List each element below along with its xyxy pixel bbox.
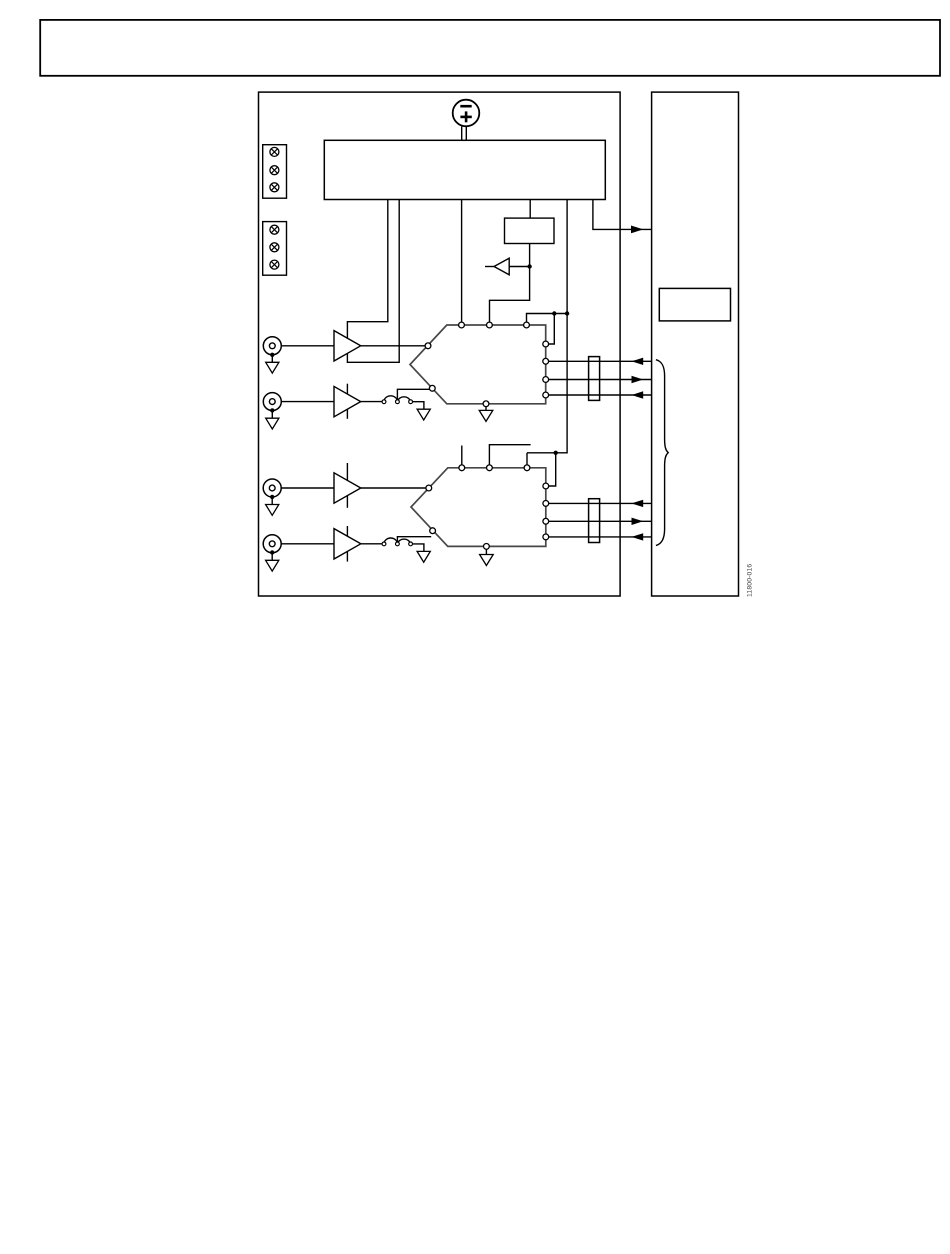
ground J1 <box>266 362 279 373</box>
clock buffer U2 <box>485 258 530 275</box>
wire J1 shield to ground <box>271 355 273 363</box>
wire MUX2 clock stub <box>489 445 530 466</box>
test point block TP1 <box>263 145 287 199</box>
ground J4 <box>266 560 279 571</box>
wire L1 tap to MUX1 input 2 <box>397 389 431 400</box>
wire clock out to FPGA <box>593 200 652 230</box>
wire MUX1 data out 2 <box>549 394 652 396</box>
wire MUX2 data out 2 <box>549 536 652 538</box>
junction select node C <box>554 451 558 455</box>
buffer A4 bias tick <box>346 526 348 562</box>
arrow bus2 line2 <box>632 533 644 540</box>
wire L1 to ground <box>413 402 424 410</box>
buffer A3 bias tick <box>346 463 348 508</box>
wire A2 to inductor L1 <box>361 401 384 403</box>
junction J2 shield <box>270 408 274 412</box>
buffer A3 <box>334 473 361 503</box>
supply source V1 <box>453 100 480 127</box>
arrow bus1 line0 <box>632 358 644 365</box>
multiplexer MUX1 <box>410 322 549 407</box>
ground L1 <box>417 409 430 420</box>
junction J1 shield <box>270 353 274 357</box>
wire MUX1 data out 1 <box>549 379 652 381</box>
connector block inside FPGA <box>659 288 730 321</box>
multiplexer MUX2 <box>411 465 549 549</box>
wire L2 tap to MUX2 input 2 <box>397 537 431 542</box>
wire MUX1 select pin riser <box>527 314 568 324</box>
FPGA block <box>652 92 739 596</box>
wire J2 to buffer A2 <box>281 401 334 403</box>
wire J3 shield to ground <box>271 497 273 505</box>
wire MUX2 enable drop <box>548 453 556 486</box>
arrow bus2 line1 <box>632 518 644 525</box>
arrow clock into FPGA <box>631 226 643 234</box>
regulator block U1 <box>324 140 605 199</box>
wire MUX2 select riser <box>526 453 528 466</box>
wire J2 shield to ground <box>271 410 273 418</box>
wire J4 to buffer A4 <box>281 543 334 545</box>
wire MUX1 ground stub <box>485 407 487 411</box>
resistor network RN2 <box>589 499 600 543</box>
junction select node B <box>565 311 569 315</box>
test point block TP2 <box>263 222 287 276</box>
buffer A1 <box>334 331 361 361</box>
arrow bus1 line1 <box>632 376 644 383</box>
resistor network RN1 <box>589 357 600 401</box>
wire MUX2 data out 0 <box>549 502 652 504</box>
ground J2 <box>266 418 279 429</box>
wire A4 to inductor L2 <box>361 543 384 545</box>
wire supply to regulator (double line) <box>462 126 467 140</box>
wire regulator to oscillator <box>529 200 531 219</box>
wire regulator to MUX1 pin <box>461 200 463 324</box>
wire select net from regulator <box>527 200 567 453</box>
connector J3 <box>263 479 281 497</box>
wire MUX2 data out 1 <box>549 520 652 522</box>
junction clock node <box>527 264 531 268</box>
connector J2 <box>263 393 281 411</box>
buffer A2 bias tick <box>346 384 348 419</box>
svg-text:11800-016: 11800-016 <box>747 564 754 597</box>
ground MUX1 <box>479 410 493 421</box>
connector J1 <box>263 337 281 355</box>
wire L2 to ground <box>413 544 424 552</box>
junction select node A <box>552 311 556 315</box>
wire MUX2 pin stub <box>461 446 463 466</box>
connector J4 <box>263 535 281 553</box>
junction J3 shield <box>270 495 274 499</box>
wire J1 to buffer A1 <box>281 345 334 347</box>
buffer A4 <box>334 529 361 559</box>
evaluation board outline <box>259 92 621 596</box>
wire A1 to MUX1 input 1 <box>361 345 428 347</box>
wire regulator to buffer A1 loop <box>347 200 399 363</box>
wire MUX2 ground stub <box>485 549 487 554</box>
ground J3 <box>266 505 279 516</box>
wire MUX1 enable stub <box>546 314 555 345</box>
wire A3 to MUX2 input 1 <box>361 487 429 489</box>
title block frame <box>40 20 940 76</box>
wire oscillator to MUX1 clock pin <box>490 244 530 324</box>
wire MUX1 data out 0 <box>549 360 652 362</box>
buffer A2 <box>334 386 361 416</box>
inductor L1 <box>382 396 412 404</box>
brace data bus group <box>656 360 668 546</box>
arrow bus2 line0 <box>632 500 644 507</box>
inductor L2 <box>382 538 412 546</box>
ground L2 <box>417 551 430 562</box>
junction J4 shield <box>270 550 274 554</box>
wire J3 to buffer A3 <box>281 487 334 489</box>
ground MUX2 <box>480 555 494 566</box>
arrow bus1 line2 <box>632 391 644 398</box>
oscillator Y1 <box>505 218 555 243</box>
wire J4 shield to ground <box>271 553 273 561</box>
